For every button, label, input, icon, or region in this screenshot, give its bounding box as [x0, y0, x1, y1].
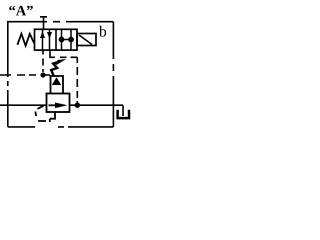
port label "A": [9, 6, 33, 16]
relief valve body RV1: [47, 94, 70, 113]
enclosure bottom edge (dashed): [8, 126, 114, 128]
pilot line valve-port to node (dashed): [42, 50, 44, 72]
solenoid U1: [77, 34, 96, 46]
enclosure top edge (dashed): [7, 21, 113, 23]
valve position divider: [55, 30, 57, 51]
main line left segment: [0, 104, 47, 106]
enclosure right edge (dashed): [112, 22, 114, 127]
junction node on main line: [75, 103, 80, 108]
port A stub with cap: [40, 17, 47, 29]
valve V1 body (two-position envelope): [35, 29, 78, 50]
flow path down-arrow: [47, 30, 52, 51]
enclosure left edge (dashed): [7, 22, 9, 127]
drain line valve to tank line (dashed): [50, 50, 77, 103]
main line right segment to tank: [70, 104, 124, 106]
junction node (vent): [40, 72, 45, 77]
relief valve spring housing: [51, 76, 64, 94]
solenoid label b: [99, 26, 106, 37]
internal pilot loop (dashed): [35, 106, 46, 121]
pilot line node to spring chamber: [45, 74, 50, 76]
poppet (filled cone): [52, 77, 61, 85]
adjustable arrow (zigzag): [51, 59, 66, 76]
valve position 2: blocked ports with plugs: [59, 30, 74, 51]
vent pilot line (dashed, external): [0, 74, 36, 76]
tank drop line: [122, 105, 124, 116]
spring (valve return spring): [17, 34, 34, 46]
drain stub below relief valve: [50, 112, 55, 122]
flow arrow inside relief valve: [49, 103, 68, 109]
flow path up-arrow: [40, 30, 45, 51]
tank symbol: [118, 110, 129, 118]
